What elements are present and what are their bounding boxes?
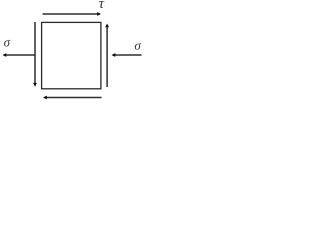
- shear arrow top face (tau), pointing right: [43, 12, 102, 16]
- shear arrow left face, pointing down: [33, 22, 37, 87]
- label sigma (right): [135, 43, 141, 50]
- shear arrow right face, pointing up: [105, 24, 109, 88]
- stress element square: [42, 22, 101, 88]
- label tau (top right): [99, 1, 104, 8]
- sigma arrow left side, pointing left: [3, 53, 36, 57]
- label sigma (left): [4, 40, 10, 47]
- shear arrow bottom face, pointing left: [43, 96, 102, 100]
- sigma arrow right side, pointing left: [112, 53, 142, 57]
